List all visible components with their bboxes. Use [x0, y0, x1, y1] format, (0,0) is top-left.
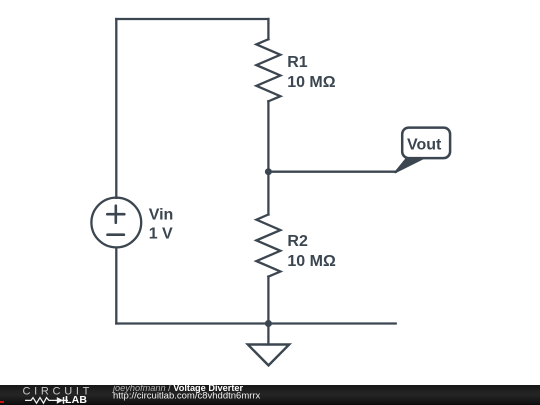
svg-text:LAB: LAB	[65, 394, 87, 405]
voltage source plus sign	[107, 206, 124, 223]
net flag Vout tail	[395, 158, 425, 173]
wire between R1 and node A	[267, 101, 269, 171]
logo diode arrow	[57, 397, 63, 404]
logo resistor-diode squiggle	[25, 397, 68, 404]
wire top horizontal	[116, 18, 268, 20]
wire left vertical upper	[115, 19, 117, 198]
wire Vout horizontal	[268, 171, 396, 173]
resistor R1	[256, 39, 280, 101]
net flag Vout box	[402, 128, 450, 159]
svg-text:http://circuitlab.com/c8vhddtn: http://circuitlab.com/c8vhddtn6mrrx	[113, 391, 261, 402]
wire right vertical above R1	[267, 19, 269, 39]
red accent mark	[0, 401, 4, 403]
voltage source V1 circle	[91, 198, 141, 248]
voltage source minus sign	[108, 233, 124, 236]
wire left vertical lower	[115, 248, 117, 324]
wire below R2	[267, 277, 269, 324]
footer bar	[0, 385, 540, 405]
wire ground stub	[267, 324, 269, 345]
ground node junction dot	[265, 320, 272, 327]
node A junction dot (Vout node)	[265, 168, 272, 175]
wire bottom horizontal	[116, 322, 395, 324]
resistor R2	[256, 215, 280, 277]
wire between node A and R2	[267, 172, 269, 215]
ground symbol triangle	[248, 345, 289, 366]
